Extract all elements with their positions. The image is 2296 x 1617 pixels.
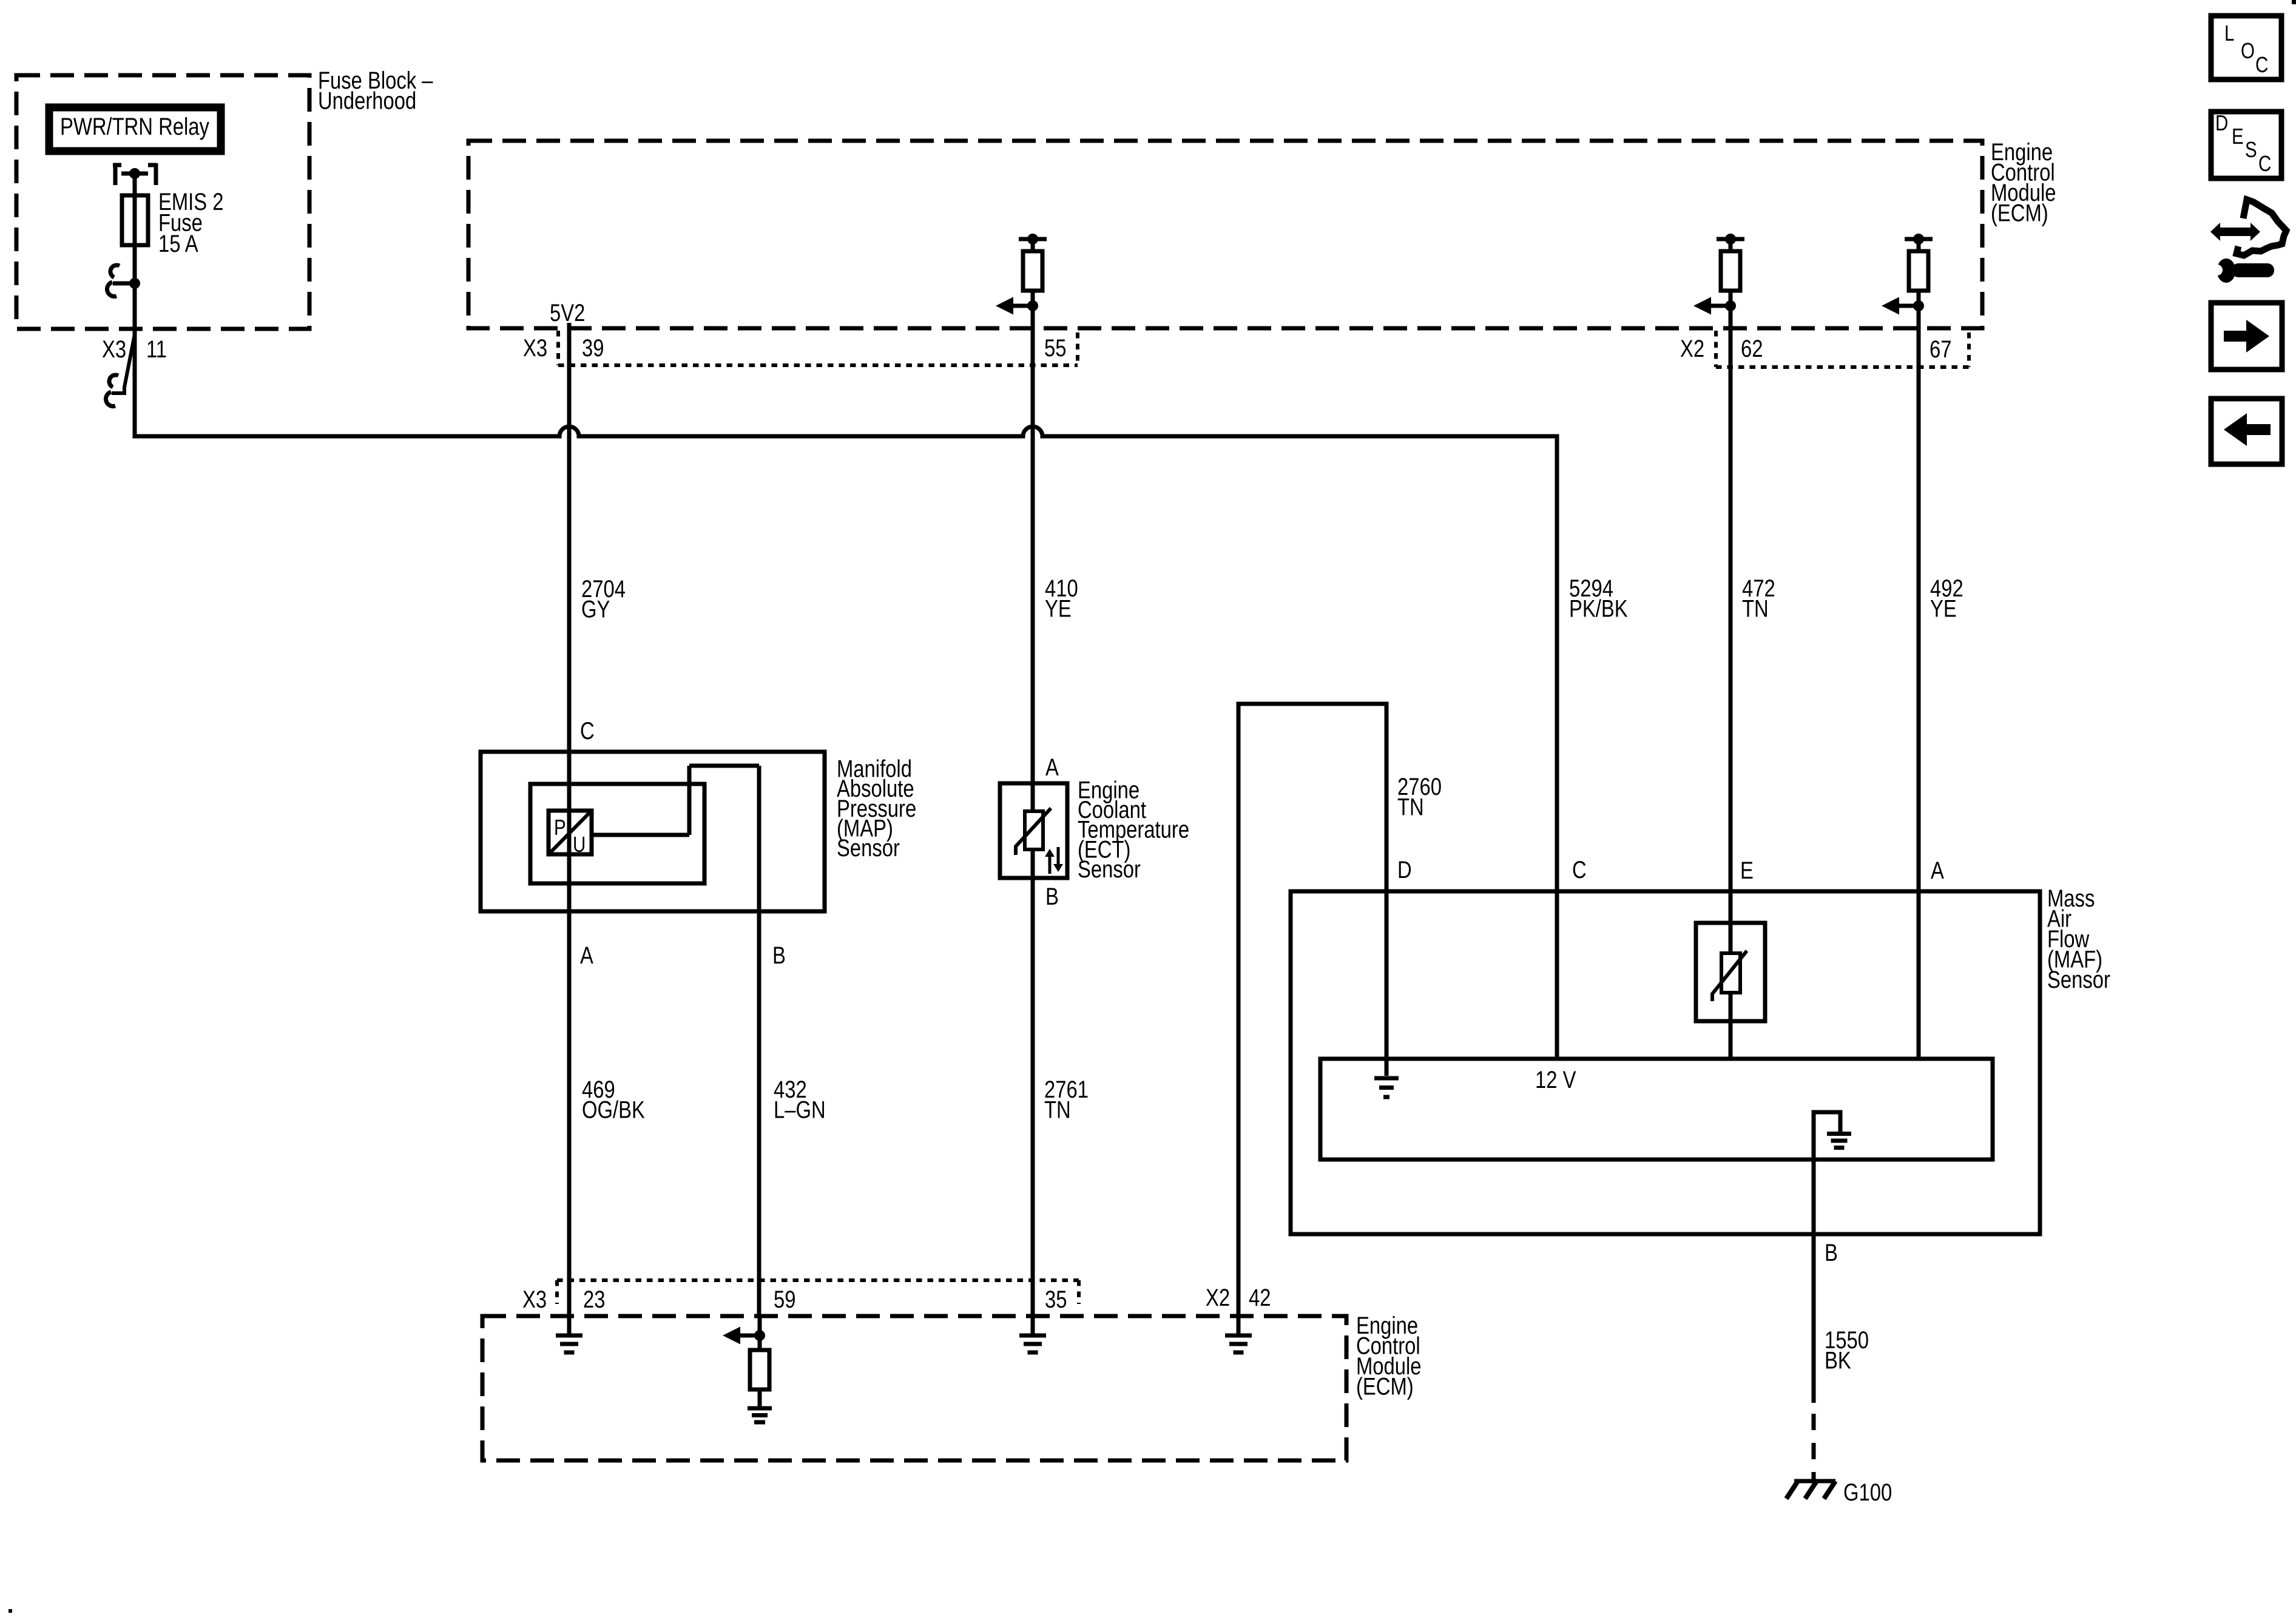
wire 410 YE bbox=[1033, 328, 1078, 783]
svg-text:U: U bbox=[573, 832, 586, 856]
MAP sensor bbox=[481, 717, 916, 969]
svg-text:Underhood: Underhood bbox=[318, 87, 416, 114]
svg-text:S: S bbox=[2245, 137, 2257, 161]
svg-text:B: B bbox=[1825, 1239, 1838, 1266]
svg-text:A: A bbox=[1045, 754, 1059, 781]
svg-text:C: C bbox=[1572, 856, 1587, 883]
svg-text:L–GN: L–GN bbox=[774, 1096, 826, 1123]
wire bus 12V feed bbox=[135, 283, 1557, 889]
svg-text:C: C bbox=[580, 717, 595, 744]
wire MAF B internal bbox=[1814, 1160, 1838, 1266]
svg-text:55: 55 bbox=[1044, 334, 1066, 362]
svg-text:5V2: 5V2 bbox=[550, 299, 585, 326]
svg-text:(ECM): (ECM) bbox=[1356, 1372, 1414, 1400]
resistor pull-up pin 67 bbox=[1882, 234, 1933, 328]
svg-text:C: C bbox=[2255, 52, 2268, 76]
resistor + ground pin 59 bbox=[723, 1316, 772, 1422]
wire 2760 TN bbox=[1238, 704, 1442, 1316]
svg-text:L: L bbox=[2224, 21, 2234, 45]
connector X2 bottom bbox=[1206, 1284, 1271, 1311]
connector X3 top bbox=[523, 331, 1078, 365]
svg-text:TN: TN bbox=[1397, 793, 1424, 820]
ECM top box bbox=[468, 138, 2056, 328]
svg-text:X2: X2 bbox=[1206, 1284, 1230, 1311]
svg-text:X3: X3 bbox=[102, 336, 126, 363]
icon LOC bbox=[2211, 16, 2281, 79]
connector X3 pin 11 bbox=[102, 334, 167, 407]
svg-text:OG/BK: OG/BK bbox=[582, 1096, 645, 1123]
svg-text:P: P bbox=[554, 815, 566, 839]
svg-text:C: C bbox=[2258, 151, 2271, 175]
wire 432 L-GN bbox=[759, 911, 826, 1316]
svg-text:Sensor: Sensor bbox=[837, 834, 900, 862]
svg-text:A: A bbox=[580, 942, 593, 969]
svg-text:D: D bbox=[2215, 110, 2228, 135]
svg-text:62: 62 bbox=[1741, 335, 1763, 362]
wire relay to fuse bbox=[133, 174, 137, 195]
svg-text:(ECM): (ECM) bbox=[1991, 199, 2048, 226]
ground G100 chassis bbox=[1786, 1479, 1892, 1506]
svg-text:12 V: 12 V bbox=[1535, 1066, 1576, 1093]
ground pin 35 bbox=[1019, 1316, 1046, 1352]
MAF sensor bbox=[1291, 856, 2110, 1234]
svg-text:39: 39 bbox=[582, 334, 604, 362]
svg-text:59: 59 bbox=[774, 1286, 795, 1313]
resistor pull-up pin 55 bbox=[996, 234, 1047, 328]
wire 5294 PK/BK bbox=[1569, 575, 1628, 622]
svg-text:E: E bbox=[2232, 124, 2244, 148]
ground pin 42 bbox=[1225, 1316, 1252, 1352]
svg-text:Sensor: Sensor bbox=[2047, 966, 2110, 993]
svg-text:GY: GY bbox=[581, 595, 610, 623]
svg-text:42: 42 bbox=[1249, 1284, 1271, 1311]
wire fuse to splice bbox=[133, 245, 137, 283]
fuse block underhood box bbox=[16, 67, 433, 329]
svg-text:X2: X2 bbox=[1680, 335, 1704, 362]
svg-text:TN: TN bbox=[1742, 595, 1769, 622]
connector X3 bottom bbox=[522, 1280, 1079, 1313]
ECT sensor bbox=[1000, 754, 1189, 910]
wire 2761 TN bbox=[1033, 878, 1089, 1316]
splice terminal bbox=[107, 265, 140, 297]
svg-text:B: B bbox=[1045, 883, 1059, 910]
svg-text:15 A: 15 A bbox=[158, 230, 198, 257]
node 5V2 bbox=[550, 299, 585, 326]
wire 472 TN bbox=[1730, 328, 1775, 923]
svg-text:BK: BK bbox=[1825, 1346, 1851, 1374]
fuse EMIS 2 Fuse 15 A bbox=[122, 188, 224, 257]
icon arrow left bbox=[2211, 399, 2282, 464]
svg-text:PK/BK: PK/BK bbox=[1569, 595, 1628, 622]
svg-text:Sensor: Sensor bbox=[1078, 856, 1141, 883]
svg-text:O: O bbox=[2241, 38, 2255, 62]
relay PWR/TRN Relay bbox=[49, 107, 221, 151]
svg-text:D: D bbox=[1397, 856, 1412, 883]
svg-text:YE: YE bbox=[1930, 595, 1957, 622]
svg-text:11: 11 bbox=[146, 336, 167, 363]
relay contact terminal bbox=[113, 163, 157, 185]
connector X2 top bbox=[1680, 331, 1969, 367]
svg-text:X3: X3 bbox=[522, 1286, 547, 1313]
svg-text:35: 35 bbox=[1045, 1286, 1067, 1313]
icon DESC bbox=[2211, 110, 2281, 178]
svg-text:A: A bbox=[1931, 857, 1944, 884]
svg-text:E: E bbox=[1740, 857, 1754, 884]
wire 469 OG/BK bbox=[569, 911, 645, 1316]
svg-text:G100: G100 bbox=[1843, 1479, 1892, 1506]
svg-text:67: 67 bbox=[1930, 336, 1951, 363]
wire 492 YE bbox=[1919, 328, 1963, 1059]
svg-text:YE: YE bbox=[1045, 595, 1072, 622]
svg-text:B: B bbox=[772, 942, 786, 969]
wire 2704 GY bbox=[569, 323, 626, 752]
resistor pull-up pin 62 bbox=[1693, 234, 1744, 328]
svg-text:23: 23 bbox=[583, 1286, 605, 1313]
svg-text:PWR/TRN Relay: PWR/TRN Relay bbox=[60, 113, 210, 140]
svg-text:X3: X3 bbox=[523, 334, 547, 362]
icon arrow right bbox=[2211, 303, 2282, 370]
wire 1550 BK bbox=[1814, 1234, 1869, 1481]
ground pin 23 bbox=[556, 1316, 582, 1352]
icon wrench part bbox=[2205, 200, 2286, 283]
svg-text:TN: TN bbox=[1044, 1096, 1071, 1123]
ECM bottom box bbox=[482, 1312, 1422, 1460]
